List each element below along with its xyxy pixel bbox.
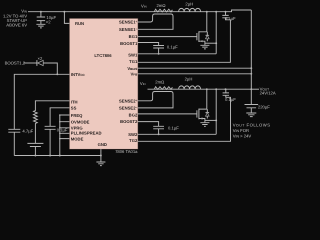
svg-text:BG1: BG1 [129,34,138,39]
svg-text:220µF: 220µF [258,104,270,109]
wire SW2 riser [215,89,217,134]
wire TG1 [138,18,230,63]
svg-text:ITH: ITH [71,99,78,104]
ground M1 [200,45,209,49]
wire VFB [138,73,251,75]
svg-text:INTVCC: INTVCC [71,72,86,77]
wire BOOST1 [138,43,159,46]
svg-text:GND: GND [98,142,107,147]
wire SW1 riser [215,12,217,54]
IC U1 LTC7806 controller block [69,18,138,149]
svg-text:7806 TA01a: 7806 TA01a [115,149,138,154]
svg-text:LTC7806: LTC7806 [94,53,112,58]
wire BG1 [138,36,197,38]
wire kelvin SENSE1 loop [138,14,173,29]
wire M2 source to SW riser [205,119,216,121]
svg-text:2µH: 2µH [185,76,193,81]
svg-text:24V/12A: 24V/12A [260,91,276,96]
svg-text:BG2: BG2 [129,112,138,117]
ground M2 [200,123,209,127]
svg-text:SS: SS [71,105,77,110]
wire FREQ/OVMODE/VPRG/PLLIN/MODE tie bus [59,114,69,155]
capacitor CIN 10uF x2 [37,12,57,25]
svg-text:0.1µF: 0.1µF [225,16,236,21]
node VOUT label [260,86,276,95]
svg-text:OVMODE: OVMODE [71,120,90,125]
svg-text:VIN FOR: VIN FOR [233,128,249,133]
svg-text:2µH: 2µH [185,2,193,7]
capacitor C1 0.1uF boost-sw top [222,12,236,21]
capacitor C SS [45,126,68,155]
svg-text:×2: ×2 [38,56,43,61]
svg-text:SW2: SW2 [128,132,138,137]
svg-text:BOOST1: BOOST1 [120,41,138,46]
ground output [246,113,256,117]
transistor M1 [197,12,209,45]
node SW2 junction dots on rail [206,88,208,90]
svg-text:TG2: TG2 [129,138,138,143]
wire VOUT bus [250,10,252,105]
ground main [96,162,105,166]
svg-text:RUN: RUN [75,21,84,26]
label footnote [233,123,271,139]
svg-text:PLLIN/SPREAD: PLLIN/SPREAD [71,131,102,136]
svg-text:SENSE1+: SENSE1+ [119,20,138,25]
wire SS [50,108,69,127]
wire VBIAS [138,67,251,69]
wire kelvin SENSE2 loop [138,92,173,108]
wire VOUT stub [251,88,259,90]
capacitor CB2 0.1uF [153,126,179,136]
diode D1 x2 [37,56,57,74]
svg-text:VOUT FOLLOWS: VOUT FOLLOWS [233,123,271,128]
svg-text:VBIAS: VBIAS [127,66,137,71]
svg-text:ABOVE 6V: ABOVE 6V [6,23,27,28]
svg-text:0.1µF: 0.1µF [167,45,178,50]
capacitor C INTVCC 4.7uF [8,129,33,156]
wire TG2 [138,95,231,141]
svg-text:0.1µF: 0.1µF [168,126,179,131]
node junction dot RUN [63,11,65,13]
wire M1 source to SW riser [205,42,216,44]
wire RUN entry [64,12,69,24]
resistor R ITH [34,111,38,144]
ground input [36,24,45,28]
svg-text:SENSE2+: SENSE2+ [119,98,138,103]
wire SW1 [138,53,216,55]
wire to diode D1 [24,62,37,64]
capacitor CB1 0.1uF [153,45,178,55]
wire INTVCC [14,74,69,129]
svg-text:SW1: SW1 [128,53,138,58]
capacitor COUT 220uF [245,104,271,113]
svg-text:TG1: TG1 [129,59,138,64]
svg-text:VIN: VIN [140,81,146,86]
wire BG2 [138,113,197,115]
svg-text:VIN: VIN [141,4,147,9]
wire VIN rail phase1 [28,10,251,12]
svg-text:SENSE1−: SENSE1− [119,27,138,32]
wire SW2 [138,133,216,135]
svg-text:VIN > 24V: VIN > 24V [233,133,252,138]
svg-text:MODE: MODE [71,136,84,141]
svg-text:FREQ: FREQ [71,113,83,118]
svg-text:BOOST2: BOOST2 [120,119,138,124]
wire bottom ground rail [14,155,101,157]
transistor M2 [197,89,209,122]
capacitor C ITH [27,143,43,155]
resistor RS2 2m ohm [154,80,172,90]
svg-text:BOOST1,2: BOOST1,2 [5,60,26,65]
resistor RS1 2m ohm [154,3,172,12]
svg-text:VFB: VFB [131,72,139,77]
inductor L1 2uH [179,2,201,12]
svg-text:4.7µF: 4.7µF [22,129,33,134]
node junction dot input cap [40,11,42,13]
capacitor C2 0.1uF boost-sw top [223,89,237,102]
svg-text:2mΩ: 2mΩ [155,80,164,85]
wire ITH [35,101,69,111]
inductor L2 2uH [179,76,201,89]
wire VIN rail phase2 [148,88,252,90]
wire BOOST2 [138,122,159,127]
svg-text:×2: ×2 [46,20,51,25]
svg-text:0.1µF: 0.1µF [225,97,236,102]
svg-text:2mΩ: 2mΩ [157,3,166,8]
svg-text:SENSE2−: SENSE2− [119,106,138,111]
wire GND pin drop [100,149,102,162]
node VIN input label [3,9,27,28]
node SW1 junction dots on rail [206,11,208,13]
